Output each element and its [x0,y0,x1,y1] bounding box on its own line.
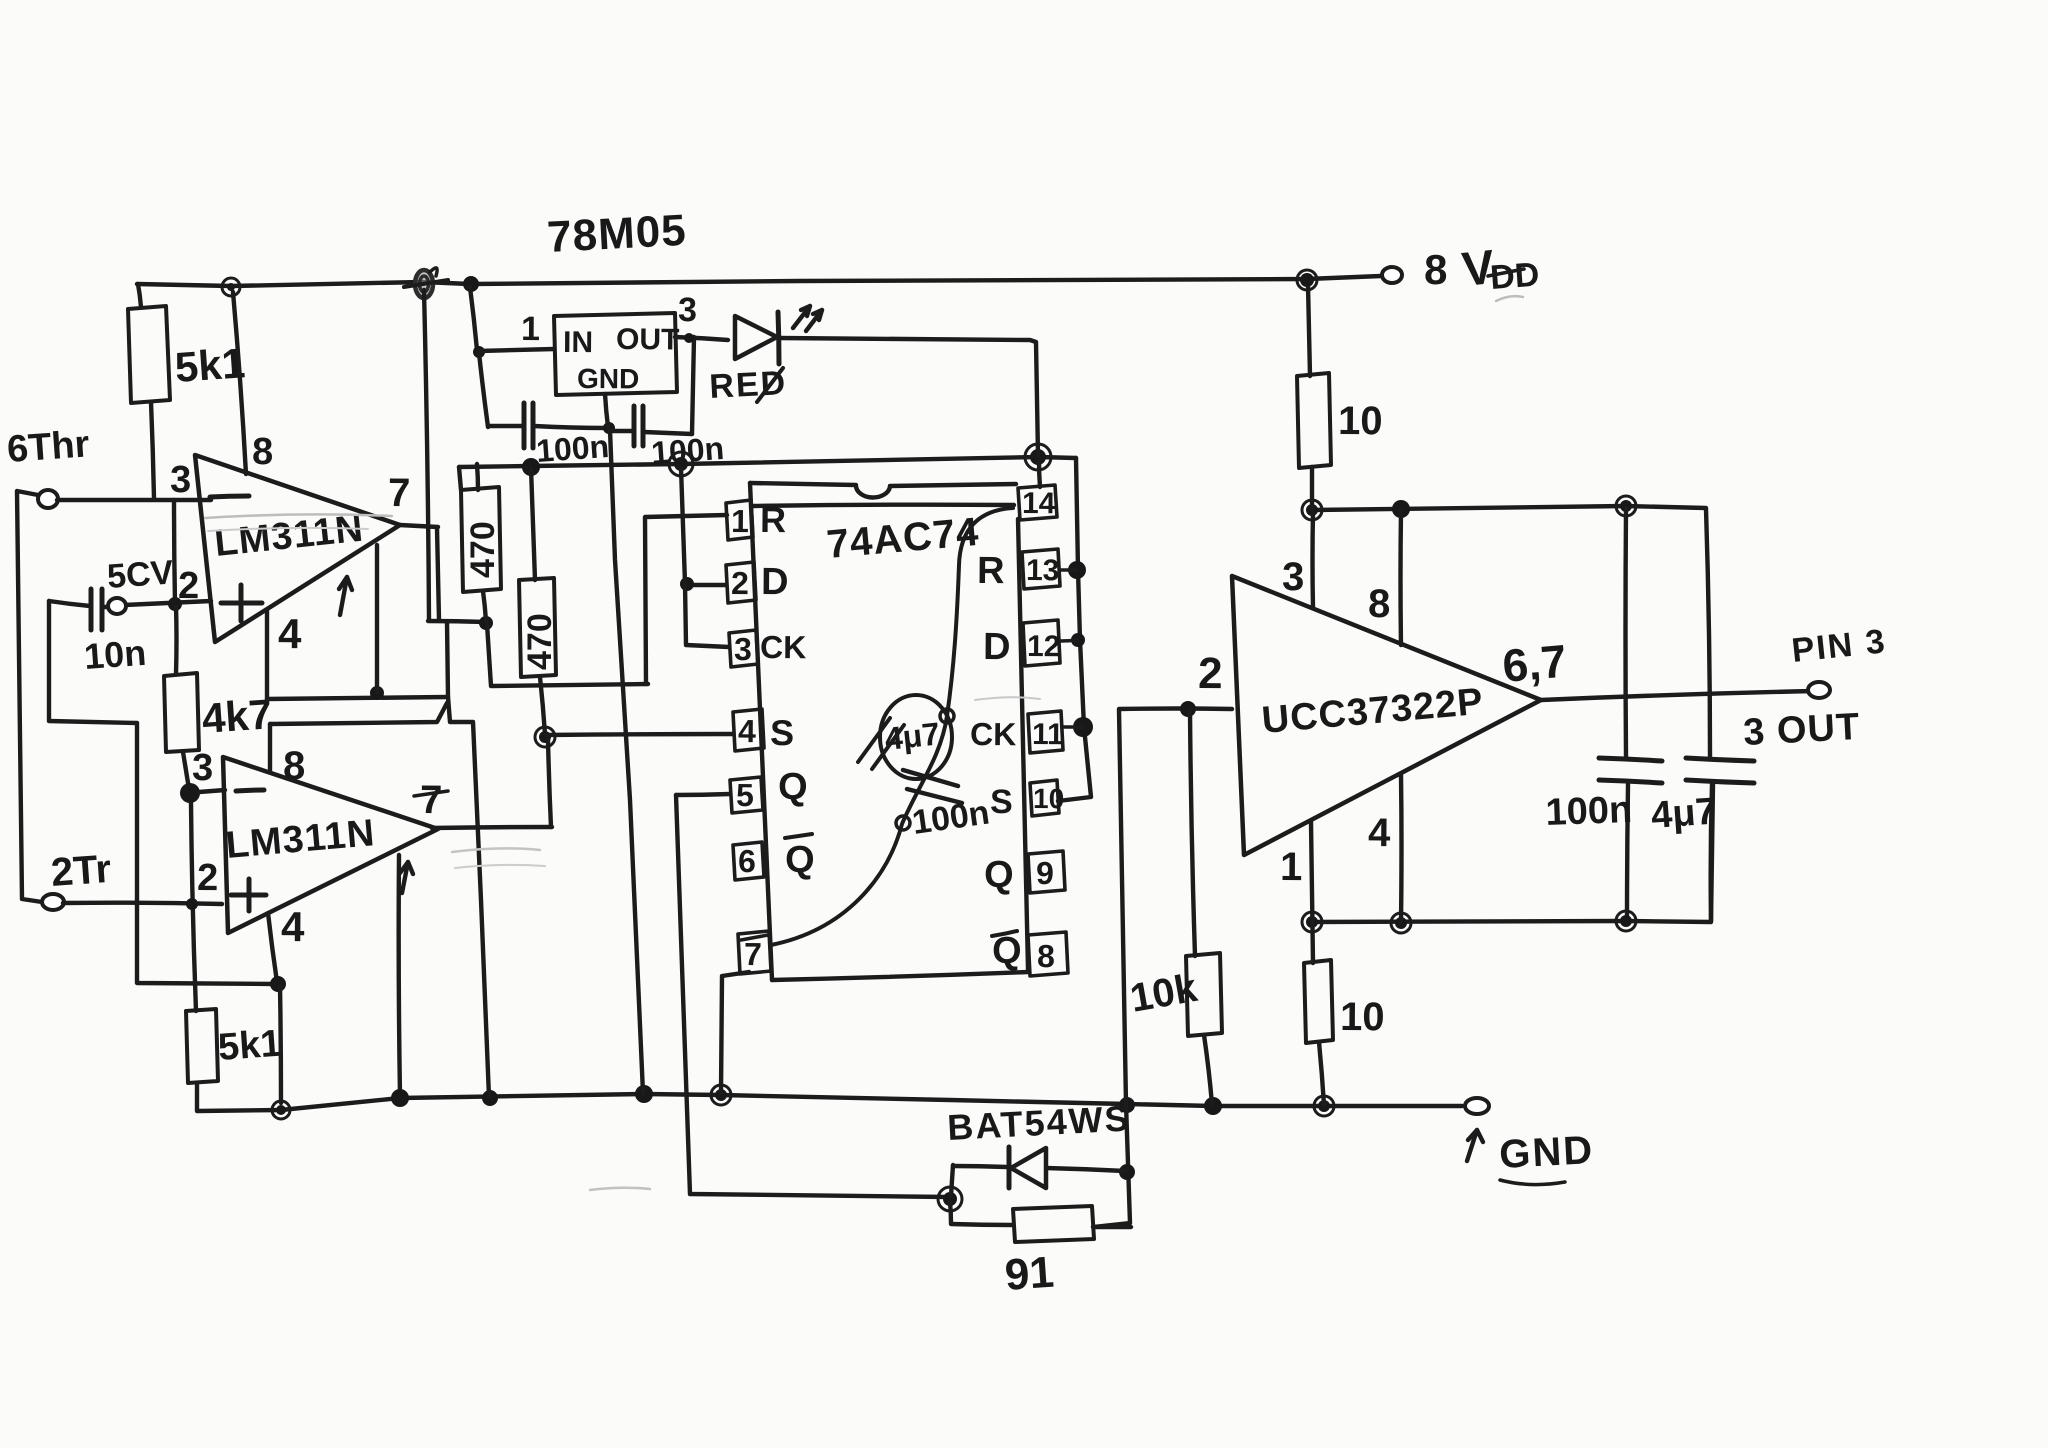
svg-text:11: 11 [1032,718,1064,751]
svg-text:6,7: 6,7 [1500,635,1568,692]
svg-text:7: 7 [744,936,762,972]
svg-text:100n: 100n [535,428,610,469]
svg-text:S: S [770,712,794,753]
svg-text:9: 9 [1036,855,1054,891]
svg-text:1: 1 [1280,845,1303,889]
svg-text:DD: DD [1489,256,1541,297]
svg-text:5CV: 5CV [106,553,175,596]
svg-text:GND: GND [577,363,639,394]
svg-text:13: 13 [1026,554,1060,587]
svg-text:4μ7: 4μ7 [883,715,942,757]
svg-text:1: 1 [731,503,749,539]
svg-text:3: 3 [678,291,697,329]
svg-text:10: 10 [1340,995,1385,1039]
svg-text:3: 3 [192,747,213,789]
svg-text:D: D [761,561,789,603]
svg-text:6: 6 [738,843,756,879]
svg-text:R: R [977,550,1005,592]
svg-text:4: 4 [281,903,305,950]
svg-text:Q: Q [778,766,808,808]
svg-text:4μ7: 4μ7 [1650,791,1718,837]
svg-text:5: 5 [736,777,754,813]
svg-text:GND: GND [1498,1128,1595,1177]
svg-text:4: 4 [1368,811,1391,855]
svg-text:S: S [990,783,1013,821]
svg-text:470: 470 [464,521,502,578]
svg-text:8: 8 [1037,938,1055,974]
svg-text:7: 7 [420,778,443,822]
svg-text:2: 2 [1198,649,1223,698]
svg-text:14: 14 [1022,487,1056,520]
svg-text:1: 1 [521,310,540,348]
svg-text:100n: 100n [1545,789,1633,834]
svg-text:10n: 10n [83,632,148,677]
svg-text:3 OUT: 3 OUT [1742,706,1861,754]
svg-text:4: 4 [738,713,756,749]
svg-text:3: 3 [734,631,752,667]
svg-text:7: 7 [388,471,411,515]
svg-text:2: 2 [731,565,749,601]
svg-text:Q: Q [785,839,815,881]
svg-text:8: 8 [283,744,306,788]
svg-text:470: 470 [521,613,559,670]
svg-text:2Tr: 2Tr [50,847,113,895]
svg-text:5k1: 5k1 [217,1023,283,1069]
svg-text:3: 3 [170,459,191,501]
svg-text:10: 10 [1338,399,1383,443]
svg-text:3: 3 [1282,555,1305,599]
svg-text:8: 8 [1424,246,1448,293]
svg-text:CK: CK [760,629,806,665]
svg-text:CK: CK [970,716,1016,752]
svg-text:OUT: OUT [616,323,680,356]
svg-text:6Thr: 6Thr [6,423,91,471]
svg-text:R: R [760,499,786,540]
svg-text:91: 91 [1003,1248,1055,1300]
svg-text:2: 2 [197,857,218,899]
svg-text:100n: 100n [650,430,725,471]
svg-text:RED: RED [708,364,788,406]
svg-text:2: 2 [178,565,199,607]
svg-text:D: D [983,626,1011,668]
svg-text:4k7: 4k7 [200,690,273,742]
svg-text:8: 8 [252,431,273,473]
svg-text:Q: Q [984,854,1014,896]
svg-text:8: 8 [1368,582,1391,626]
svg-text:4: 4 [278,610,302,657]
svg-text:10: 10 [1033,783,1064,814]
svg-text:12: 12 [1027,630,1061,663]
svg-text:IN: IN [563,326,593,359]
svg-text:78M05: 78M05 [546,206,688,262]
